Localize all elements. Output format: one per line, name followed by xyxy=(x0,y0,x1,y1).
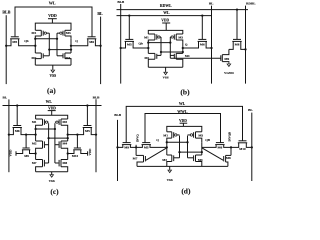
access nmos M5 xyxy=(120,14,150,49)
svg-text:M3: M3 xyxy=(66,31,71,35)
svg-text:M7: M7 xyxy=(32,161,37,165)
wire cross-couple lower xyxy=(160,51,184,53)
svg-text:VDD: VDD xyxy=(48,106,56,110)
access nmos M10 xyxy=(231,141,253,151)
access nmos M6 xyxy=(8,104,37,135)
svg-text:(a): (a) xyxy=(47,86,56,95)
svg-text:VDD: VDD xyxy=(88,148,92,156)
power VDD tap right xyxy=(88,148,92,156)
node Q vertical xyxy=(67,129,69,141)
svg-text:M4: M4 xyxy=(62,142,67,146)
svg-text:M6: M6 xyxy=(15,129,20,133)
nmos M2 xyxy=(32,53,44,65)
node Q xyxy=(71,39,78,53)
svg-text:INVQB: INVQB xyxy=(228,132,232,142)
power VDD xyxy=(179,119,187,127)
node INVQ xyxy=(135,134,139,156)
wire M9 gate to Qb net xyxy=(170,57,221,59)
svg-text:M5: M5 xyxy=(127,43,132,47)
svg-text:M6: M6 xyxy=(89,40,94,44)
wire cross-couple upper xyxy=(34,128,56,130)
svg-text:M9: M9 xyxy=(24,154,29,158)
svg-text:Qb: Qb xyxy=(24,39,29,43)
feedback nmos M10 xyxy=(67,133,88,158)
svg-text:M2: M2 xyxy=(162,158,167,162)
wire VDD rail xyxy=(36,115,68,119)
svg-text:BL: BL xyxy=(3,96,8,100)
write wordline WWL xyxy=(145,110,221,143)
power VDD tap left xyxy=(9,149,16,157)
svg-text:M2: M2 xyxy=(32,56,37,60)
svg-text:RDBL: RDBL xyxy=(246,1,256,5)
access nmos M6 xyxy=(70,37,102,47)
wire left gate vertical xyxy=(44,33,50,56)
nmos M2 xyxy=(162,155,173,166)
wire VSS rail xyxy=(35,64,71,66)
access nmos M5 xyxy=(67,104,98,135)
read wordline RDWL xyxy=(117,4,249,10)
wire right gate vertical xyxy=(55,123,59,163)
wire VSS rail xyxy=(137,165,228,167)
svg-text:M4: M4 xyxy=(185,54,190,58)
feedback nmos M9 xyxy=(16,133,37,158)
bitline-bar BLB xyxy=(93,95,101,172)
wire M7 gate diagonal to Q xyxy=(146,148,167,160)
access nmos M9 xyxy=(116,143,136,150)
read bitline RDBL xyxy=(246,1,257,83)
wordline WL xyxy=(126,102,242,143)
svg-text:RDWL: RDWL xyxy=(160,4,172,8)
ground VSS xyxy=(50,65,57,78)
ground VSS xyxy=(49,172,55,183)
read nmos M9 xyxy=(221,55,230,63)
svg-text:M5: M5 xyxy=(144,146,149,150)
svg-text:Qb: Qb xyxy=(138,41,143,45)
svg-text:VDD: VDD xyxy=(48,13,57,18)
node INVQB xyxy=(228,132,233,155)
svg-text:M7: M7 xyxy=(133,157,138,161)
svg-text:BL: BL xyxy=(248,108,253,112)
svg-text:M1: M1 xyxy=(32,31,37,35)
svg-text:INVQ: INVQ xyxy=(135,134,139,142)
wire cross-couple lower xyxy=(178,151,203,153)
svg-text:VSS: VSS xyxy=(167,178,173,182)
power VDD xyxy=(48,106,57,115)
pmos M1 xyxy=(163,132,179,143)
svg-text:WL: WL xyxy=(179,102,186,106)
wire right gate vertical xyxy=(57,33,63,56)
svg-text:Q: Q xyxy=(185,42,188,46)
svg-text:M3: M3 xyxy=(198,133,203,137)
svg-text:BL: BL xyxy=(209,1,214,5)
svg-text:M6: M6 xyxy=(218,146,223,150)
wire left gate vertical xyxy=(157,37,161,55)
nmos M2 xyxy=(32,141,45,160)
svg-text:M8: M8 xyxy=(62,161,67,165)
svg-text:M8: M8 xyxy=(235,43,240,47)
node Qb vertical xyxy=(35,129,37,141)
svg-text:M3: M3 xyxy=(178,36,183,40)
svg-text:VDD: VDD xyxy=(9,149,13,157)
wire left gate vertical xyxy=(174,136,180,158)
bitline BL xyxy=(248,108,253,181)
svg-text:M1: M1 xyxy=(32,120,37,124)
svg-text:M9: M9 xyxy=(124,146,129,150)
nmos M2 xyxy=(144,53,156,67)
ground VSS xyxy=(167,166,173,182)
wire VSS rail xyxy=(148,66,183,68)
nmos M8 feedback xyxy=(224,155,231,166)
pmos M3 xyxy=(170,34,183,43)
wire VDD rail xyxy=(35,23,71,30)
nmos M7 feedback xyxy=(133,155,146,166)
wire cross-couple upper xyxy=(166,141,189,143)
nmos M4 xyxy=(59,141,68,160)
svg-text:(c): (c) xyxy=(50,187,59,196)
nmos M4 xyxy=(194,155,203,166)
svg-text:M6: M6 xyxy=(200,43,205,47)
wire cross-couple lower (Q to M1/M2 gates) xyxy=(48,48,72,50)
svg-text:M10: M10 xyxy=(239,147,246,151)
svg-text:VGND: VGND xyxy=(224,71,234,75)
node Q xyxy=(156,138,166,155)
pmos M3 xyxy=(55,119,68,129)
svg-text:M1: M1 xyxy=(163,133,168,137)
wire VDD rail xyxy=(167,126,202,131)
wire cross-couple upper xyxy=(147,41,171,43)
wire VDD rail xyxy=(148,30,183,34)
svg-text:M5: M5 xyxy=(85,129,90,133)
nmos M4 xyxy=(63,53,71,65)
pmos M1 xyxy=(32,30,50,39)
bitline BL xyxy=(209,1,214,83)
ground VGND read foot xyxy=(224,62,234,75)
svg-text:M1: M1 xyxy=(144,36,149,40)
svg-text:M8: M8 xyxy=(226,156,231,160)
svg-text:BLB: BLB xyxy=(2,9,10,14)
svg-text:M4: M4 xyxy=(198,158,203,162)
svg-text:(d): (d) xyxy=(181,186,191,195)
wordline WL xyxy=(3,100,102,105)
ground VSS xyxy=(162,67,168,79)
svg-text:M3: M3 xyxy=(62,120,67,124)
svg-text:(b): (b) xyxy=(180,88,190,97)
wire cross-couple lower xyxy=(47,137,68,139)
bitline-bar BLB xyxy=(114,113,122,181)
pmos M3 xyxy=(57,30,71,39)
bitline-bar BLB xyxy=(117,0,125,84)
wordline WL xyxy=(15,1,92,37)
nmos M8 stacked xyxy=(59,160,68,172)
pmos M1 xyxy=(32,119,49,129)
read nmos M8 xyxy=(229,8,247,50)
access nmos M5 xyxy=(135,143,168,150)
svg-text:M9: M9 xyxy=(224,57,229,61)
svg-text:WL: WL xyxy=(46,100,53,104)
nmos M7 stacked xyxy=(32,160,45,172)
wire left gate vertical xyxy=(45,123,49,163)
svg-text:WL: WL xyxy=(163,11,170,15)
pmos M3 xyxy=(188,132,204,143)
svg-text:M4: M4 xyxy=(66,56,71,60)
svg-text:BLB: BLB xyxy=(117,0,125,4)
wordline WL xyxy=(117,11,212,16)
svg-text:WL: WL xyxy=(49,1,56,6)
svg-text:VDD: VDD xyxy=(161,18,169,22)
power VDD xyxy=(48,13,57,23)
bitline BL xyxy=(3,96,9,173)
access nmos M6 xyxy=(182,14,213,49)
svg-text:M5: M5 xyxy=(12,40,17,44)
svg-text:VSS: VSS xyxy=(50,74,57,78)
wire M8 source to M9 drain xyxy=(222,49,229,54)
nmos M4 xyxy=(174,53,190,67)
node QB xyxy=(202,138,211,155)
node Qb xyxy=(138,41,148,53)
svg-text:M2: M2 xyxy=(32,142,37,146)
svg-text:BL: BL xyxy=(97,11,103,16)
svg-text:VSS: VSS xyxy=(49,179,55,183)
node Qb xyxy=(24,39,35,53)
bitline BL xyxy=(97,11,103,84)
svg-text:VDD: VDD xyxy=(179,119,187,123)
pmos M1 xyxy=(144,34,161,43)
power VDD xyxy=(161,18,170,30)
access nmos M5 xyxy=(5,37,36,47)
svg-text:BLB: BLB xyxy=(114,113,122,117)
wire right gate vertical xyxy=(170,37,174,58)
svg-text:M10: M10 xyxy=(72,154,79,158)
svg-text:M2: M2 xyxy=(144,56,149,60)
svg-text:Q: Q xyxy=(75,39,78,43)
wire VSS rail xyxy=(36,171,68,173)
wire cross-couple upper (Qb to M3/M4 gates) xyxy=(34,38,58,40)
svg-text:VSS: VSS xyxy=(162,76,168,80)
wire right gate vertical xyxy=(188,136,194,158)
access nmos M6 xyxy=(202,143,231,150)
wire M8 gate diagonal to QB xyxy=(202,148,223,160)
bitline-bar BLB xyxy=(2,9,10,84)
svg-text:QB: QB xyxy=(205,138,211,142)
svg-text:BLB: BLB xyxy=(93,95,101,99)
svg-text:Q: Q xyxy=(156,138,159,142)
node Q xyxy=(183,42,188,53)
